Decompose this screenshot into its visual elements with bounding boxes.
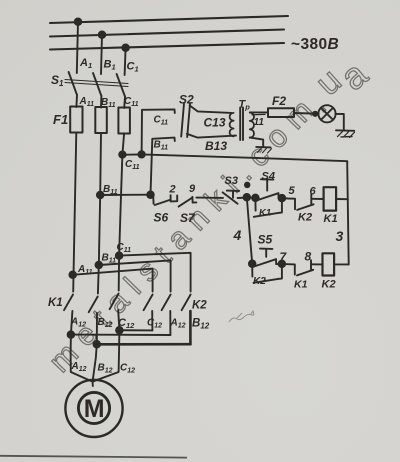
wire C12 to motor	[94, 330, 120, 381]
node A12	[68, 331, 75, 338]
svg-text:K2: K2	[253, 276, 266, 287]
node C11 tap2	[116, 252, 123, 259]
wire S2 to C13 run	[190, 105, 232, 113]
svg-text:F1: F1	[53, 112, 68, 127]
wire power line L3	[50, 43, 284, 50]
coil K2	[323, 253, 335, 275]
node C12	[116, 327, 123, 334]
svg-text:K1: K1	[48, 297, 63, 309]
wire power line L1	[50, 16, 288, 23]
motor M outer	[65, 380, 122, 437]
node S2 riser tap	[138, 151, 144, 157]
svg-text:S7: S7	[180, 211, 196, 225]
node 2 row1	[252, 195, 259, 202]
transformer T primary coil	[230, 113, 234, 136]
wire control row1 left	[100, 194, 150, 196]
button S3	[227, 190, 239, 192]
wire power line L2	[50, 30, 284, 37]
svg-text:K1: K1	[324, 213, 338, 225]
wire phase C fuse to K1	[119, 134, 124, 291]
svg-text:11: 11	[254, 117, 265, 128]
svg-text:8: 8	[305, 250, 312, 264]
switch S6	[151, 195, 154, 204]
node C1 tap	[122, 45, 129, 52]
node C11 tap	[119, 151, 125, 157]
wire C to fuse	[123, 97, 126, 109]
label winding 11 bracket	[252, 113, 266, 115]
wire A11 tap to K2 riser1	[73, 269, 153, 292]
switch S2 blade 2	[187, 104, 190, 137]
svg-text:2: 2	[169, 184, 176, 196]
fuse F1 pole A	[70, 107, 82, 133]
node 7	[279, 261, 286, 268]
wire K2 out2 to A12	[71, 334, 170, 336]
svg-text:4: 4	[233, 227, 242, 243]
ground secondary side	[256, 146, 270, 149]
contact K2 hold	[251, 264, 253, 277]
contact K2 NC row1	[282, 198, 295, 209]
svg-text:S6: S6	[154, 211, 169, 225]
fuse F1 pole C	[118, 108, 129, 134]
contact K1 hold	[254, 198, 256, 211]
svg-text:S2: S2	[179, 93, 194, 107]
bottom-left edge line	[0, 456, 187, 458]
svg-text:C13: C13	[204, 116, 226, 130]
node row2 left	[249, 260, 256, 267]
pencil squiggle	[229, 311, 254, 322]
wire B11 tap to K2 riser2	[99, 260, 171, 291]
contact K1 pole A	[64, 295, 73, 311]
node 1 row1	[244, 194, 251, 201]
contact K1 NC row2	[282, 264, 295, 275]
svg-text:B13: B13	[205, 139, 227, 153]
contact K1 pole C	[110, 294, 119, 310]
ground lamp side	[336, 129, 354, 132]
lamp HL	[318, 105, 335, 122]
node B11 tap2	[96, 262, 103, 269]
wire control top rail C11 to right	[122, 154, 347, 161]
stray dot above S3	[245, 183, 250, 188]
switch S1 blade A	[69, 72, 77, 95]
fuse F1 pole B	[95, 107, 107, 133]
svg-text:K1: K1	[294, 279, 308, 291]
wire phase A drop to S1	[77, 22, 78, 73]
switch S7	[179, 198, 193, 207]
transformer T core	[239, 108, 241, 141]
svg-text:9: 9	[189, 183, 196, 195]
svg-text:5: 5	[289, 185, 296, 197]
svg-text:~380В: ~380В	[291, 36, 339, 53]
wire A to fuse	[75, 95, 78, 107]
wire right rail down	[347, 161, 349, 264]
svg-text:K2: K2	[192, 300, 207, 312]
wire secondary bottom to ground	[250, 138, 263, 147]
wire B12 to motor	[93, 344, 97, 381]
svg-text:S5: S5	[258, 233, 273, 247]
contact K1 pole B	[89, 297, 98, 313]
wire secondary top to F2	[250, 111, 268, 113]
wire motor stem	[92, 381, 94, 386]
transformer T secondary coil	[250, 113, 254, 138]
fuse F2	[268, 108, 294, 117]
wire K2 out3 to B12 (bold)	[97, 343, 191, 346]
svg-text:M: M	[84, 395, 105, 423]
wire riser 4	[247, 197, 252, 263]
contact K2 pole 3	[182, 295, 191, 311]
coil K1	[324, 187, 337, 210]
svg-text:K2: K2	[298, 212, 312, 224]
wire row1 to S3	[196, 197, 223, 199]
watermark metalstanki.com.ua	[42, 53, 375, 379]
svg-text:S3: S3	[225, 175, 238, 187]
button S4	[261, 178, 273, 180]
wire phase B drop to S1	[101, 35, 102, 74]
switch S1 linkage	[65, 80, 128, 84]
wire K2 out1 to C12	[119, 329, 152, 331]
button S5	[260, 248, 272, 250]
wire S2 pole2 riser	[151, 138, 175, 195]
node A1 tap	[75, 19, 82, 26]
contact K2 pole 1	[144, 295, 153, 311]
wire phase A fuse to K1	[73, 133, 76, 292]
wire coil K1 to rail	[336, 198, 348, 200]
svg-text:6: 6	[310, 186, 317, 198]
wire A12 to motor	[71, 335, 92, 382]
wire F2 to lamp	[294, 112, 319, 115]
node B1 tap	[99, 32, 106, 39]
wire lamp to ground	[336, 114, 344, 130]
switch S1 blade C	[117, 74, 125, 97]
motor M inner	[78, 392, 109, 423]
contact K2 pole 2	[162, 295, 171, 311]
svg-text:K2: K2	[322, 279, 336, 291]
svg-text:S4: S4	[262, 171, 275, 183]
node lamp left	[313, 112, 317, 116]
switch S1 blade B	[93, 73, 101, 96]
svg-text:K1: K1	[259, 208, 271, 219]
wire S2 pole1 riser	[142, 109, 175, 154]
node A11 tap	[69, 272, 76, 279]
wire phase C drop to S1	[125, 48, 126, 75]
svg-text:3: 3	[336, 228, 344, 244]
switch S2 blade 1	[181, 103, 184, 136]
node B11 control tap	[97, 192, 104, 199]
wire coil K2 to rail	[334, 263, 349, 265]
wire B to fuse	[100, 96, 102, 108]
node B12	[94, 341, 101, 348]
svg-text:F2: F2	[272, 94, 286, 108]
node 5	[279, 195, 286, 202]
node S2 pole2 junction	[147, 191, 154, 198]
wire phase B fuse to K1	[98, 133, 101, 294]
wire C11 tap to K2 riser3	[119, 253, 191, 292]
wire S2 to B13 run	[187, 134, 236, 138]
